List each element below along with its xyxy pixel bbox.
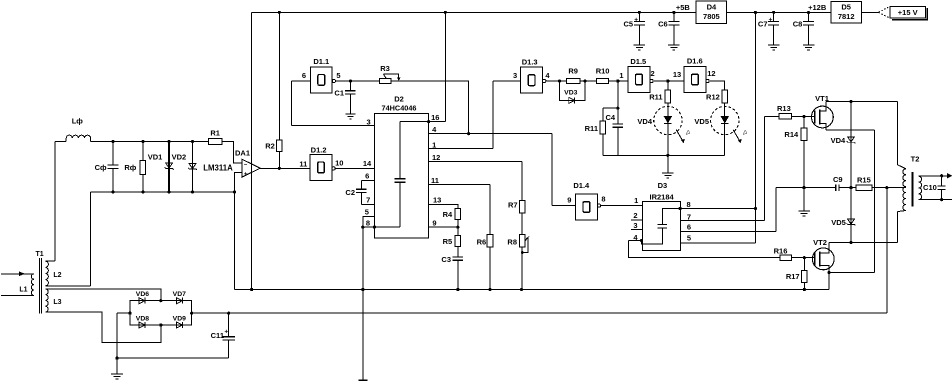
svg-text:8: 8 — [601, 195, 605, 204]
svg-text:6: 6 — [302, 71, 306, 80]
svg-text:C6: C6 — [658, 20, 668, 29]
svg-text:8: 8 — [687, 200, 691, 209]
svg-text:R11: R11 — [649, 92, 662, 101]
svg-text:R7: R7 — [508, 200, 518, 209]
svg-text:R14: R14 — [784, 130, 799, 139]
svg-text:C11: C11 — [211, 331, 224, 340]
svg-text:+12В: +12В — [808, 3, 827, 12]
svg-text:D1.3: D1.3 — [522, 58, 538, 67]
svg-text:D1.6: D1.6 — [687, 56, 703, 65]
svg-text:11: 11 — [299, 160, 307, 169]
svg-text:C3: C3 — [441, 255, 451, 264]
svg-text:2: 2 — [633, 211, 637, 220]
svg-text:VD8: VD8 — [136, 316, 149, 323]
svg-text:L1: L1 — [19, 287, 27, 294]
svg-text:14: 14 — [363, 159, 372, 168]
svg-text:D5: D5 — [841, 3, 851, 12]
svg-text:12: 12 — [432, 153, 440, 162]
svg-text:9: 9 — [567, 195, 571, 204]
svg-text:Lф: Lф — [72, 116, 84, 125]
svg-text:R3: R3 — [380, 64, 390, 73]
svg-text:5: 5 — [687, 234, 691, 243]
svg-text:R8: R8 — [507, 238, 517, 247]
svg-text:+5В: +5В — [676, 3, 691, 12]
svg-text:VD9: VD9 — [173, 316, 186, 323]
svg-text:R15: R15 — [857, 176, 871, 185]
svg-text:11: 11 — [431, 176, 439, 185]
svg-text:R6: R6 — [477, 238, 487, 247]
svg-text:R16: R16 — [774, 246, 788, 255]
svg-text:LM311A: LM311A — [203, 163, 233, 172]
svg-text:R9: R9 — [568, 67, 578, 76]
svg-text:R5: R5 — [443, 237, 453, 246]
svg-text:VD7: VD7 — [173, 291, 186, 298]
svg-text:R2: R2 — [265, 141, 275, 150]
svg-text:+15 V: +15 V — [898, 8, 918, 17]
svg-text:8: 8 — [366, 219, 370, 228]
svg-text:R17: R17 — [786, 272, 800, 281]
svg-text:7: 7 — [687, 213, 691, 222]
svg-text:VD5: VD5 — [831, 218, 846, 227]
svg-text:74HC4046: 74HC4046 — [382, 104, 417, 113]
svg-text:R10: R10 — [596, 67, 610, 76]
svg-text:13: 13 — [433, 196, 441, 205]
svg-text:7805: 7805 — [703, 12, 720, 21]
svg-text:VD4: VD4 — [637, 117, 652, 126]
svg-text:3: 3 — [633, 221, 637, 230]
svg-text:+: + — [224, 329, 228, 336]
svg-text:D1.1: D1.1 — [313, 57, 329, 66]
svg-text:C5: C5 — [624, 20, 634, 29]
svg-text:C7: C7 — [758, 20, 768, 29]
svg-text:12: 12 — [707, 69, 715, 78]
svg-text:+: + — [634, 16, 638, 23]
svg-text:C4: C4 — [606, 113, 616, 122]
svg-text:3: 3 — [513, 71, 517, 80]
svg-text:L3: L3 — [53, 299, 61, 306]
svg-text:13: 13 — [673, 70, 681, 79]
svg-text:6: 6 — [687, 223, 691, 232]
svg-text:1: 1 — [619, 71, 623, 80]
svg-text:1: 1 — [432, 140, 436, 149]
svg-text:C8: C8 — [793, 20, 803, 29]
svg-text:R13: R13 — [777, 104, 791, 113]
svg-text:VD2: VD2 — [172, 152, 187, 161]
svg-text:9: 9 — [432, 219, 436, 228]
svg-text:R4: R4 — [443, 210, 453, 219]
svg-text:VD4: VD4 — [831, 136, 846, 145]
svg-text:D1.4: D1.4 — [573, 181, 590, 190]
svg-text:+: + — [244, 171, 248, 178]
svg-text:C9: C9 — [833, 175, 843, 184]
svg-text:D1.5: D1.5 — [630, 57, 646, 66]
svg-text:R11: R11 — [585, 124, 598, 133]
svg-text:T2: T2 — [911, 155, 920, 164]
svg-text:L2: L2 — [53, 272, 61, 279]
svg-text:+: + — [769, 16, 773, 23]
svg-text:IR2184: IR2184 — [650, 193, 675, 202]
svg-text:Cф: Cф — [95, 163, 107, 172]
svg-text:Rф: Rф — [124, 163, 136, 172]
svg-text:VT2: VT2 — [813, 238, 827, 247]
svg-text:VD5: VD5 — [694, 117, 709, 126]
svg-text:16: 16 — [431, 113, 439, 122]
svg-text:C2: C2 — [345, 188, 355, 197]
svg-text:6: 6 — [365, 172, 369, 181]
svg-text:D1.2: D1.2 — [311, 146, 327, 155]
svg-text:D4: D4 — [707, 2, 717, 11]
svg-text:VD6: VD6 — [136, 291, 149, 298]
svg-text:D2: D2 — [394, 94, 404, 103]
svg-text:10: 10 — [335, 158, 343, 167]
svg-text:5: 5 — [365, 208, 369, 217]
svg-text:1: 1 — [634, 196, 638, 205]
svg-text:C1: C1 — [334, 89, 344, 98]
svg-text:DA1: DA1 — [235, 148, 250, 157]
svg-text:R1: R1 — [210, 128, 220, 137]
svg-text:VD1: VD1 — [148, 152, 163, 161]
svg-text:5: 5 — [336, 71, 340, 80]
svg-text:2: 2 — [651, 69, 655, 78]
svg-text:T1: T1 — [36, 251, 44, 258]
svg-text:C10: C10 — [923, 183, 937, 192]
svg-text:R12: R12 — [706, 92, 720, 101]
svg-text:D3: D3 — [658, 181, 668, 190]
svg-text:7812: 7812 — [838, 12, 855, 21]
svg-text:7: 7 — [366, 196, 370, 205]
svg-text:VD3: VD3 — [564, 89, 577, 96]
